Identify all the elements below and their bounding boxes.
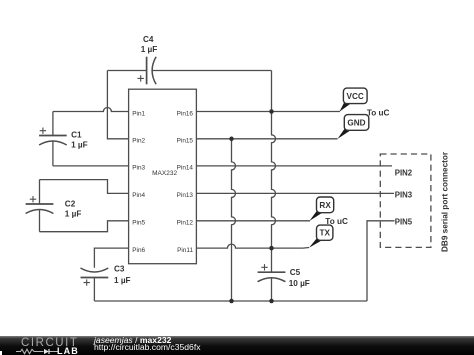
svg-text:C4: C4 (143, 35, 154, 44)
wire C1 bottom to Pin3 (53, 165, 129, 167)
wire C2 top path to Pin4 (40, 180, 129, 194)
wire riser x=271.5 to C5 (271, 248, 273, 272)
wire Pin11 to TX flag with hop (196, 244, 309, 248)
net flag RX (310, 197, 334, 221)
wire C3 bottom stub (93, 278, 95, 302)
svg-text:DB9 serial port connector: DB9 serial port connector (441, 151, 450, 252)
svg-text:Pin15: Pin15 (177, 138, 194, 145)
svg-text:PIN5: PIN5 (395, 217, 413, 226)
wire C2 stub bottom (39, 210, 41, 232)
svg-text:Pin5: Pin5 (132, 220, 145, 227)
svg-text:Pin2: Pin2 (132, 138, 145, 145)
capacitor C4 (138, 57, 157, 85)
CircuitLab logo doodle (16, 348, 58, 355)
node Pin11/C5 junction (269, 246, 274, 251)
wire Pin16 to VCC flag (196, 111, 340, 113)
wire Pin15 to GND flag (196, 138, 337, 140)
svg-text:MAX232: MAX232 (152, 170, 177, 177)
node ground/C5 junction (269, 299, 274, 304)
wire C4 left vertical to Pin2 (107, 71, 128, 139)
wire riser x=231.5 with hops (232, 139, 236, 301)
net flag VCC (340, 88, 368, 112)
wire C5 bottom stub (271, 278, 273, 301)
DB9 serial port connector dashed outline (380, 154, 431, 247)
svg-text:GND: GND (347, 119, 365, 128)
svg-text:1 µF: 1 µF (71, 141, 88, 150)
svg-text:1 µF: 1 µF (65, 210, 82, 219)
svg-text:Pin12: Pin12 (177, 220, 194, 227)
svg-text:VCC: VCC (347, 92, 364, 101)
svg-text:Pin11: Pin11 (177, 247, 193, 254)
wire Pin6 to C3 (94, 248, 128, 268)
CircuitLab logo wordmark (21, 338, 79, 349)
svg-text:To uC: To uC (367, 109, 390, 118)
footer white notch (0, 351, 2, 355)
wire C4 right to top corner (152, 70, 271, 72)
net flag TX (309, 225, 333, 248)
wire Pin14 to PIN2 (196, 165, 392, 167)
wire right riser x=271.5 top (271, 71, 273, 112)
svg-text:Pin16: Pin16 (177, 110, 194, 117)
svg-text:C3: C3 (114, 264, 125, 273)
wire riser x=271.5 with hops (272, 112, 276, 249)
wire ground bottom rail (94, 300, 367, 302)
svg-text:PIN2: PIN2 (395, 169, 413, 178)
svg-text:Pin1: Pin1 (132, 110, 145, 117)
junction dots (229, 109, 274, 303)
wire C2 stub top (39, 180, 41, 204)
svg-text:10 µF: 10 µF (289, 279, 310, 288)
footer url line (94, 343, 201, 352)
svg-text:C5: C5 (290, 268, 301, 277)
wire C4 left horizontal (107, 70, 146, 72)
node Pin15/GND junction (229, 137, 234, 142)
wire PIN5 riser (367, 221, 395, 301)
wire C1 top to Pin1 with hop (53, 108, 129, 112)
svg-text:C1: C1 (71, 131, 82, 140)
svg-text:C2: C2 (65, 199, 76, 208)
svg-text:TX: TX (319, 229, 330, 238)
wire Pin13 to PIN3 (196, 192, 394, 194)
svg-text:Pin13: Pin13 (177, 192, 194, 199)
wire C1 stub top (52, 112, 54, 136)
op-amp U1 MAX232 IC body (129, 89, 197, 264)
footer author line (94, 336, 171, 345)
svg-text:RX: RX (319, 201, 331, 210)
wire C1 stub bottom (52, 141, 54, 166)
svg-text:Pin3: Pin3 (132, 165, 145, 172)
capacitor C3 (81, 268, 109, 286)
node ground/riser1 junction (229, 299, 234, 304)
svg-text:Pin6: Pin6 (132, 247, 145, 254)
svg-text:Pin4: Pin4 (132, 192, 145, 199)
svg-text:PIN3: PIN3 (395, 190, 413, 199)
CircuitLab logo LAB (57, 347, 79, 355)
svg-text:To uC: To uC (325, 217, 348, 226)
net flag GND (338, 115, 369, 139)
capacitor C2 (26, 196, 54, 214)
capacitor C5 (258, 264, 286, 282)
svg-text:1 µF: 1 µF (141, 45, 158, 54)
wire C2 bottom path to Pin5 (40, 221, 129, 232)
svg-text:1 µF: 1 µF (114, 276, 131, 285)
capacitor C1 (39, 128, 67, 146)
wire Pin12 to RX flag (196, 220, 310, 222)
svg-text:Pin14: Pin14 (177, 165, 194, 172)
node Pin16/VCC junction (269, 109, 274, 114)
